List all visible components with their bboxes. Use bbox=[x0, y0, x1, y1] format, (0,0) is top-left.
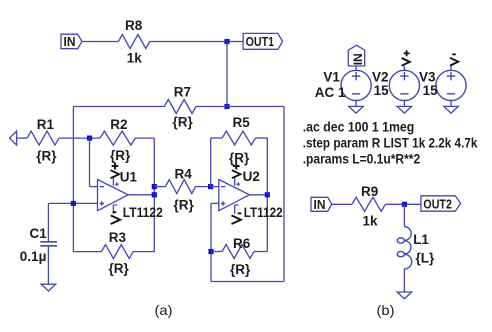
svg-text:{R}: {R} bbox=[230, 262, 251, 277]
resistor R9 bbox=[352, 197, 385, 211]
net flag IN above V1 (rotated pentagon) bbox=[348, 45, 364, 66]
resistor R8 bbox=[118, 35, 149, 49]
svg-text:R1: R1 bbox=[37, 117, 55, 132]
wire V3 bottom stub bbox=[450, 101, 452, 107]
V2 flag label + bbox=[404, 52, 410, 54]
svg-text:AC 1: AC 1 bbox=[315, 85, 346, 100]
V2 minus mark bbox=[400, 93, 408, 95]
antenna arrow at R1 input bbox=[10, 131, 17, 145]
svg-text:R5: R5 bbox=[233, 115, 251, 130]
wire R5 right lead bbox=[256, 137, 268, 139]
U1 V- flag label - bbox=[113, 211, 117, 213]
wire R5 left vertical bbox=[210, 138, 212, 187]
wire U2 output bbox=[249, 194, 267, 196]
svg-text:{R}: {R} bbox=[229, 151, 250, 166]
svg-text:{L}: {L} bbox=[416, 251, 436, 266]
svg-text:.step param R LIST 1k 2.2k 4.7: .step param R LIST 1k 2.2k 4.7k bbox=[303, 136, 478, 151]
ground under C1 bbox=[41, 284, 56, 291]
V1 minus mark bbox=[352, 93, 360, 95]
svg-text:.ac dec 100 1 1meg: .ac dec 100 1 1meg bbox=[303, 119, 415, 134]
wire C1 to U1 +input bbox=[48, 202, 97, 204]
inductor L1 bbox=[397, 227, 411, 269]
U2 V- net flag arrow bbox=[232, 215, 241, 224]
U1 non-inverting input mark bbox=[100, 203, 104, 205]
wire up to U2 +input bbox=[210, 203, 212, 281]
U2 V- power stub bbox=[234, 205, 236, 214]
junction U2 -input node bbox=[208, 184, 213, 189]
svg-text:OUT1: OUT1 bbox=[246, 34, 275, 49]
junction OUT1 node bbox=[224, 39, 229, 44]
svg-text:V1: V1 bbox=[323, 70, 340, 85]
U2 V- pin mark bbox=[235, 204, 239, 206]
svg-text:R3: R3 bbox=[109, 230, 127, 245]
wire into U2 +input bbox=[211, 202, 219, 204]
svg-text:{R}: {R} bbox=[110, 148, 131, 163]
U2 V+ power stub bbox=[234, 177, 236, 186]
net flag OUT2 bbox=[421, 196, 461, 211]
V3 - net flag arrow bbox=[450, 58, 458, 66]
V3 flag label - bbox=[452, 53, 456, 55]
junction U2 output bbox=[265, 192, 270, 197]
wire into U2 -input bbox=[211, 186, 219, 188]
svg-text:0.1µ: 0.1µ bbox=[20, 249, 47, 264]
wire R4 right lead bbox=[196, 186, 211, 188]
op-amp U2 triangle bbox=[219, 180, 250, 211]
U1 V+ net flag arrow bbox=[111, 170, 120, 178]
V1 plus mark bbox=[352, 75, 360, 77]
svg-text:R6: R6 bbox=[233, 236, 251, 251]
svg-text:R9: R9 bbox=[361, 184, 378, 199]
capacitor C1 bbox=[40, 241, 57, 243]
U2 V+ flag label + bbox=[233, 165, 240, 167]
net flag IN (a) bbox=[61, 34, 82, 49]
svg-text:1k: 1k bbox=[127, 50, 143, 65]
U1 V+ flag label + bbox=[112, 165, 119, 167]
U1 V+ pin mark bbox=[115, 183, 119, 185]
wire R1 to R2 bbox=[59, 137, 100, 139]
junction R7 right node bbox=[224, 104, 229, 109]
wire IN to R8 bbox=[82, 41, 119, 43]
wire U1 output vertical bbox=[153, 138, 155, 252]
wire IN to R9 bbox=[332, 203, 352, 205]
wire R4 left lead bbox=[154, 186, 165, 188]
svg-text:OUT2: OUT2 bbox=[423, 196, 452, 211]
wire right outer vertical bbox=[283, 107, 285, 282]
wire V1 top stub bbox=[355, 66, 357, 70]
ground under V2 bbox=[397, 106, 411, 113]
U1 inverting input mark bbox=[100, 186, 104, 188]
resistor R4 bbox=[166, 180, 196, 194]
svg-text:L1: L1 bbox=[413, 232, 429, 247]
wire R7 left segment bbox=[73, 106, 164, 108]
junction U1 +input node bbox=[71, 201, 76, 206]
junction U1 -input node bbox=[87, 136, 92, 141]
U2 inverting input mark bbox=[221, 186, 225, 188]
op-amp U1 triangle bbox=[98, 180, 129, 211]
voltage source V3 circle bbox=[436, 70, 466, 100]
svg-text:U1: U1 bbox=[120, 169, 138, 184]
wire R8 to OUT1 bbox=[150, 41, 244, 43]
wire into U1 -input bbox=[90, 186, 98, 188]
resistor R5 bbox=[222, 131, 255, 145]
resistor R6 bbox=[222, 245, 254, 259]
resistor R3 bbox=[102, 245, 134, 259]
V3 plus mark bbox=[447, 75, 455, 77]
wire arrow to R1 bbox=[17, 137, 28, 139]
wire R9 to OUT2 bbox=[385, 203, 421, 205]
svg-text:{R}: {R} bbox=[109, 261, 130, 276]
V2 plus mark bbox=[400, 75, 408, 77]
svg-text:(b): (b) bbox=[377, 302, 395, 318]
svg-text:15: 15 bbox=[423, 83, 439, 98]
svg-text:IN: IN bbox=[314, 197, 326, 212]
svg-text:C1: C1 bbox=[30, 226, 48, 241]
U1 V- net flag arrow bbox=[111, 215, 120, 224]
wire R7 right segment bbox=[196, 106, 284, 108]
V2 + net flag arrow bbox=[402, 58, 410, 66]
svg-text:.params L=0.1u*R**2: .params L=0.1u*R**2 bbox=[303, 152, 421, 167]
wire R3 left lead bbox=[73, 251, 101, 253]
wire left vertical node A bbox=[72, 107, 74, 252]
svg-text:{R}: {R} bbox=[173, 115, 194, 130]
wire U2 output vertical bbox=[266, 138, 268, 252]
svg-text:R8: R8 bbox=[125, 18, 143, 33]
U1 V- power stub bbox=[112, 205, 114, 214]
resistor R2 bbox=[100, 131, 135, 145]
svg-text:1k: 1k bbox=[363, 213, 379, 228]
junction U1 output bbox=[152, 192, 157, 197]
net flag OUT1 bbox=[243, 33, 283, 49]
wire V2 top stub bbox=[403, 66, 405, 70]
U1 V- pin mark bbox=[114, 204, 118, 206]
U2 non-inverting input mark bbox=[221, 203, 225, 205]
svg-text:15: 15 bbox=[374, 83, 390, 98]
svg-text:LT1122: LT1122 bbox=[123, 205, 163, 220]
wire V3 top stub bbox=[450, 66, 452, 70]
resistor R7 bbox=[164, 100, 196, 114]
svg-text:R4: R4 bbox=[175, 166, 193, 181]
voltage source V1 circle bbox=[341, 70, 371, 100]
wire C1 top lead bbox=[47, 203, 49, 241]
voltage source V2 circle bbox=[389, 70, 419, 100]
wire R3 right lead bbox=[133, 251, 154, 253]
svg-text:LT1122: LT1122 bbox=[244, 205, 283, 220]
wire bottom outer horizontal bbox=[211, 281, 284, 283]
ground under V1 bbox=[349, 106, 363, 113]
U2 V+ pin mark bbox=[236, 183, 240, 185]
svg-text:(a): (a) bbox=[155, 302, 173, 318]
U2 V+ net flag arrow bbox=[232, 170, 241, 178]
svg-text:U2: U2 bbox=[243, 169, 260, 184]
svg-text:R7: R7 bbox=[174, 85, 191, 100]
wire V1 bottom stub bbox=[355, 101, 357, 107]
resistor R1 bbox=[27, 131, 59, 145]
wire R2 right lead bbox=[135, 137, 154, 139]
wire C1 bottom lead bbox=[47, 246, 49, 284]
wire R6 right lead bbox=[254, 251, 267, 253]
ground under V3 bbox=[444, 106, 458, 113]
junction OUT2 node bbox=[402, 202, 407, 207]
U2 V- flag label - bbox=[238, 212, 242, 214]
U1 V+ power stub bbox=[112, 177, 114, 186]
wire OUT1 node down to R7 line bbox=[226, 42, 228, 107]
ground in circuit b bbox=[397, 292, 411, 299]
wire down to L1 bbox=[403, 204, 405, 226]
junction R6 left node bbox=[208, 249, 213, 254]
wire V2 bottom stub bbox=[403, 101, 405, 107]
net flag IN (b) bbox=[311, 197, 332, 211]
V3 minus mark bbox=[447, 93, 455, 95]
wire U1 output bbox=[128, 194, 154, 196]
junction R4 left node bbox=[152, 184, 157, 189]
wire down to U1 -input bbox=[89, 138, 91, 187]
wire R5 left lead bbox=[211, 137, 222, 139]
svg-text:IN: IN bbox=[351, 53, 365, 65]
svg-text:IN: IN bbox=[64, 34, 76, 49]
svg-text:{R}: {R} bbox=[36, 148, 57, 163]
svg-text:{R}: {R} bbox=[174, 198, 195, 213]
svg-text:R2: R2 bbox=[110, 117, 127, 132]
wire R6 left lead bbox=[211, 251, 222, 253]
wire L1 to ground bbox=[403, 269, 405, 292]
